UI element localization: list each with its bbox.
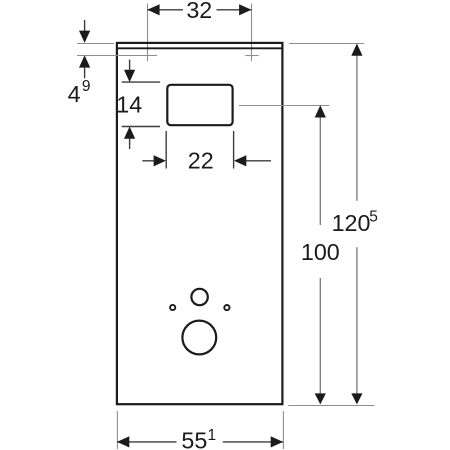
dimension 32 line left segment [147, 9, 183, 11]
extension line 14 upper [122, 81, 160, 83]
arrowhead 32 left [147, 4, 159, 15]
display window [167, 85, 232, 125]
extension line 55 left vertical [116, 411, 118, 449]
dimension 120.5 line upper segment [356, 55, 358, 201]
svg-text:4: 4 [68, 81, 81, 107]
arrowhead 4.9 down [79, 31, 90, 43]
dimension 32 line right segment [217, 9, 252, 11]
svg-text:120: 120 [332, 210, 371, 236]
arrowhead 55 left [117, 436, 129, 447]
dimension 22 left arrow tail [142, 160, 153, 162]
dimension 22 right arrow tail [246, 160, 271, 162]
extension line 32-left vertical [147, 4, 149, 62]
extension line 55 right vertical [282, 411, 284, 449]
arrowhead 14 up [124, 127, 135, 139]
dimension 55 line right segment [223, 441, 283, 443]
monolith panel outline [117, 43, 283, 404]
arrowhead 22 left [154, 155, 166, 166]
extension line top right [289, 43, 364, 45]
dimension 120.5 line lower segment [356, 247, 358, 394]
extension line 14 lower [122, 126, 160, 128]
extension line bottom baseline [288, 405, 374, 407]
extension line 4.9 lower with 32 tick [77, 55, 157, 57]
svg-text:22: 22 [188, 147, 214, 173]
dimension 100 line upper segment [319, 116, 321, 225]
arrowhead 55 right [271, 436, 283, 447]
svg-text:100: 100 [301, 239, 340, 265]
small circle right [224, 305, 229, 310]
cover plate bottom line [117, 47, 282, 49]
tick 32 right cross [245, 55, 258, 57]
extension line 32-right vertical [251, 4, 253, 62]
extension line 22 left vertical [165, 131, 167, 169]
extension line 4.9 upper [77, 43, 114, 45]
arrowhead 120.5 down [351, 393, 362, 404]
svg-text:1: 1 [208, 427, 217, 444]
dimension 14 lower arrow tail [129, 138, 131, 149]
svg-text:14: 14 [116, 91, 142, 117]
svg-text:5: 5 [369, 209, 378, 226]
svg-text:55: 55 [181, 428, 207, 450]
arrowhead 120.5 up [351, 44, 362, 56]
small circle left [170, 305, 175, 310]
dimension 55 line left segment [117, 441, 177, 443]
arrowhead 100 up [315, 105, 326, 117]
arrowhead 32 right [239, 4, 251, 15]
arrowhead 100 down [315, 393, 326, 404]
dimension 14 upper arrow tail [129, 60, 131, 71]
svg-text:9: 9 [82, 78, 91, 95]
flush plate circle big [182, 321, 216, 355]
dimension 4.9 lower arrow tail [84, 67, 86, 78]
arrowhead 22 right [234, 155, 246, 166]
arrowhead 4.9 up [79, 55, 90, 67]
arrowhead 14 down [124, 70, 135, 82]
flush plate circle top [191, 289, 207, 305]
dimension 100 line lower segment [319, 278, 321, 394]
extension line 22 right vertical [233, 131, 235, 169]
extension line window right [239, 105, 329, 107]
dimension 4.9 upper arrow tail [84, 20, 86, 32]
svg-text:32: 32 [186, 0, 212, 23]
